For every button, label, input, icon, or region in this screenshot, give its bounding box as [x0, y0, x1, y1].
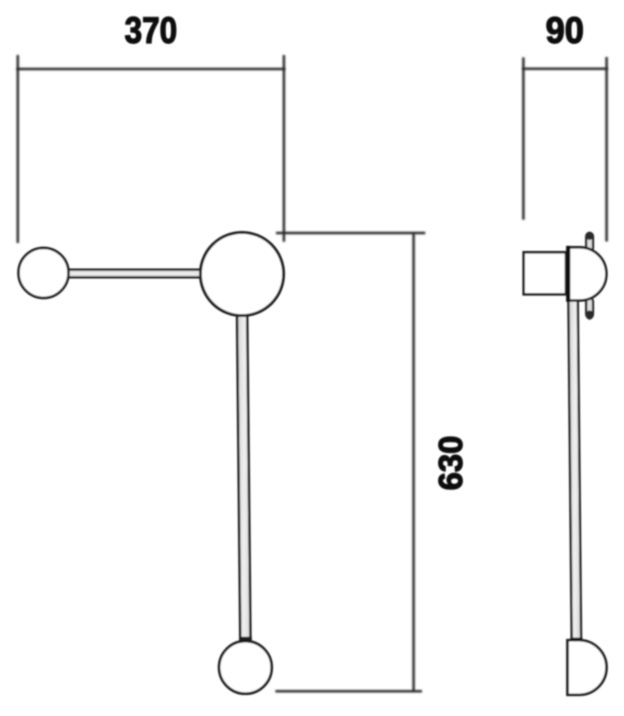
dim label 630: [433, 436, 470, 491]
dim 370: right extension line: [283, 55, 286, 242]
dim 630: dimension line: [412, 233, 415, 691]
front main sphere: [200, 232, 283, 315]
svg-text:630: 630: [433, 436, 470, 491]
side stem tube: [568, 300, 581, 640]
side top knob: [586, 232, 594, 251]
svg-text:370: 370: [125, 11, 177, 52]
dim 90: left extension line: [522, 57, 525, 219]
front small sphere: [19, 248, 69, 298]
front bottom sphere: [219, 637, 272, 694]
dim 370: left extension line: [17, 55, 20, 243]
dim label 90: [546, 10, 584, 51]
side bottom half-sphere: [568, 638, 607, 695]
front horizontal arm tube: [66, 270, 204, 278]
dim label 370: [125, 11, 177, 52]
side wall plate: [524, 252, 566, 294]
dim 630: top extension line: [276, 232, 425, 235]
dim 90: dimension line: [522, 68, 608, 71]
side bottom knob: [586, 298, 594, 320]
side lamp head half-sphere: [568, 246, 606, 302]
svg-text:90: 90: [546, 10, 584, 51]
dim 630: bottom extension line: [275, 690, 422, 693]
dim 90: right extension line: [605, 57, 608, 242]
front vertical stem tube: [237, 312, 251, 643]
dim 370: dimension line: [17, 68, 286, 71]
